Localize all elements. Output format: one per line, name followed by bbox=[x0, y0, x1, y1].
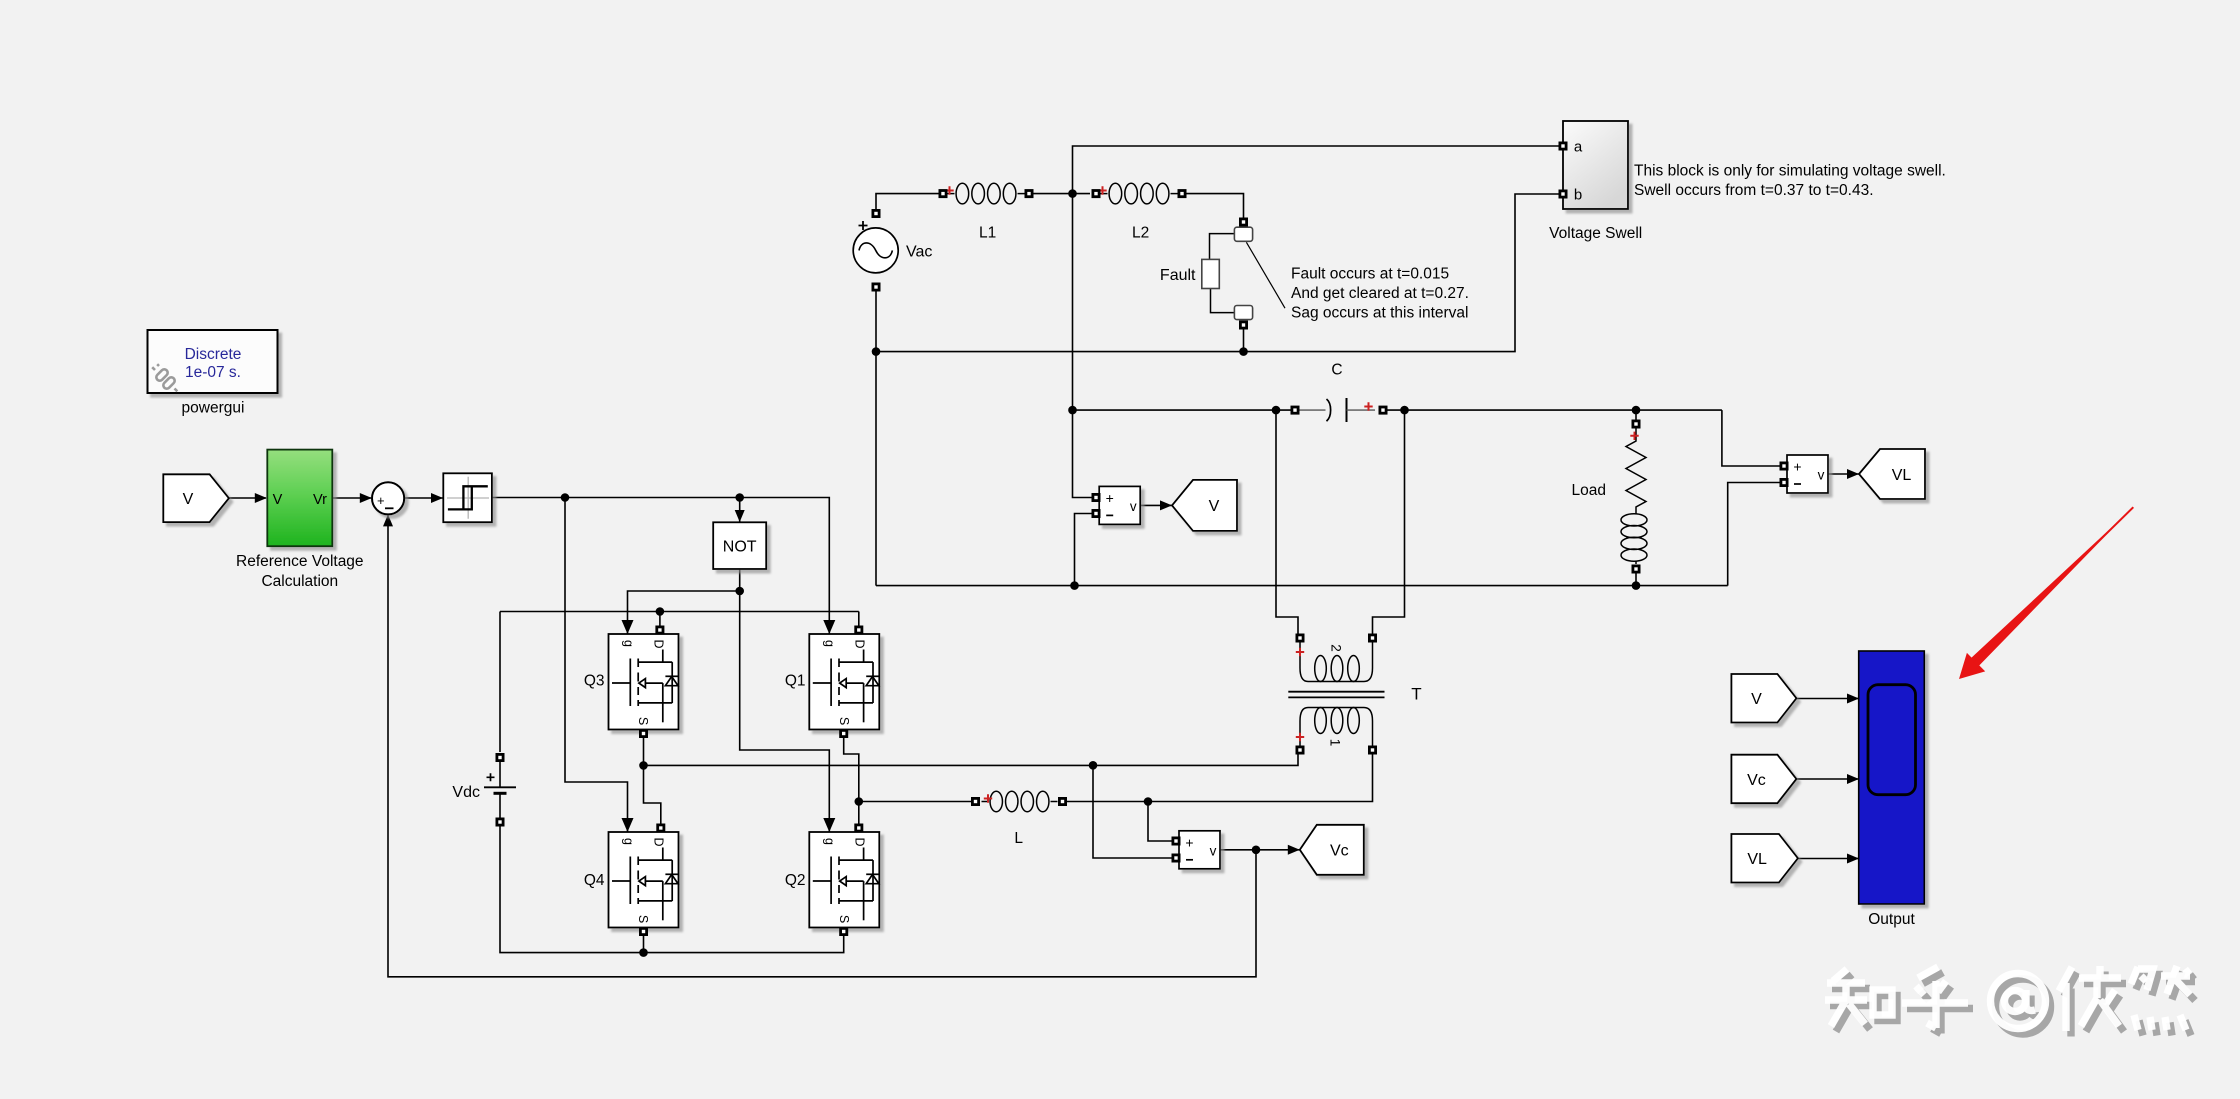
svg-text:Discrete: Discrete bbox=[185, 346, 242, 363]
wire lower bus bbox=[876, 585, 1728, 587]
wire relay out branch to Q4 gate bbox=[565, 498, 628, 833]
arrowhead into NOT bbox=[735, 510, 745, 522]
transistor Q1 bbox=[809, 634, 879, 730]
from tag Vc bbox=[1731, 755, 1796, 804]
wire capacitor C right to Load and VL bbox=[1387, 409, 1722, 411]
port T w2 r bbox=[1368, 634, 1377, 643]
node NOT branch bbox=[735, 493, 744, 502]
svg-text:NOT: NOT bbox=[723, 539, 757, 556]
node relay branch bbox=[561, 493, 570, 502]
port VL+ bbox=[1780, 462, 1789, 471]
port L1 l bbox=[939, 189, 948, 198]
input tag V bbox=[163, 474, 229, 522]
node drain rail bbox=[656, 607, 665, 616]
svg-text:Q2: Q2 bbox=[785, 872, 806, 889]
wire to Vc meter plus bbox=[1148, 802, 1174, 842]
wire cap right node to transformer w2 right bbox=[1373, 410, 1405, 634]
wire VL tag to scope bbox=[1798, 858, 1859, 860]
goto tag VL bbox=[1859, 449, 1925, 499]
voltmeter Vc bbox=[1179, 831, 1220, 869]
wire midpoint to inductor L bbox=[859, 801, 971, 803]
port Vc+ bbox=[1172, 837, 1181, 846]
port Load t bbox=[1632, 420, 1641, 429]
arrowhead into V tag bbox=[1160, 500, 1172, 510]
arrowhead into Q2 gate bbox=[823, 818, 835, 832]
node source rail bbox=[639, 948, 648, 957]
port C l bbox=[1291, 406, 1300, 415]
node Vc minus bbox=[1089, 761, 1098, 770]
svg-text:a: a bbox=[1574, 139, 1583, 156]
svg-text:v: v bbox=[1210, 843, 1217, 858]
port T w1 l bbox=[1296, 746, 1305, 755]
port L r bbox=[1058, 797, 1067, 806]
wire V meter minus to bus bbox=[1075, 514, 1096, 586]
svg-text:Output: Output bbox=[1868, 911, 1915, 928]
wire rail to Q3 drain bbox=[659, 612, 661, 627]
powergui block bbox=[148, 330, 278, 393]
wire sum to relay bbox=[404, 497, 443, 499]
port T w1 r bbox=[1368, 746, 1377, 755]
transistor Q3 bbox=[609, 634, 679, 730]
wire Load top lead bbox=[1635, 410, 1637, 420]
port Vac - bbox=[872, 283, 881, 292]
svg-text:Calculation: Calculation bbox=[261, 573, 338, 590]
svg-text:L1: L1 bbox=[979, 225, 996, 242]
voltmeter VL bbox=[1787, 455, 1828, 493]
port T w2 l bbox=[1296, 634, 1305, 643]
svg-text:This block is only for simulat: This block is only for simulating voltag… bbox=[1634, 163, 1946, 180]
svg-text:Voltage Swell: Voltage Swell bbox=[1549, 225, 1642, 242]
wire drain rail bbox=[500, 611, 859, 613]
wire rail to Vc meter minus bbox=[1093, 765, 1174, 858]
arrowhead feedback into sum bbox=[383, 514, 393, 526]
wire VL meter out to VL tag bbox=[1828, 473, 1859, 475]
node Load top bbox=[1632, 406, 1641, 415]
port Q2 D bbox=[854, 824, 863, 833]
svg-text:Fault: Fault bbox=[1160, 267, 1196, 284]
svg-text:2: 2 bbox=[1329, 644, 1344, 652]
wire V tag to scope bbox=[1796, 698, 1859, 700]
node Vac bus bbox=[872, 347, 881, 356]
port Vdc+ bbox=[496, 753, 505, 762]
svg-text:v: v bbox=[1818, 468, 1825, 483]
svg-text:+: + bbox=[1185, 834, 1193, 850]
port V- bbox=[1092, 509, 1101, 518]
from tag V bbox=[1731, 674, 1796, 723]
svg-text:V: V bbox=[273, 492, 283, 508]
capacitor C bbox=[1299, 409, 1326, 411]
wire midpoint rail to transformer w1 left bbox=[644, 754, 1299, 765]
wire Vac bottom down to lower bus bbox=[875, 287, 877, 586]
arrowhead into relay bbox=[431, 493, 443, 503]
Fault breaker bbox=[1202, 227, 1253, 319]
port Q3 S bbox=[639, 729, 648, 738]
port Fault b bbox=[1239, 321, 1248, 330]
wire branch down to NOT bbox=[739, 498, 741, 523]
svg-text:Swell occurs from t=0.37 to t=: Swell occurs from t=0.37 to t=0.43. bbox=[1634, 182, 1874, 199]
port Q4 S bbox=[639, 927, 648, 936]
leader line annotation bbox=[1246, 242, 1285, 308]
node C right bbox=[1400, 406, 1409, 415]
wire Vdc plus up bbox=[499, 612, 501, 753]
port Vdc- bbox=[496, 818, 505, 827]
goto tag V bbox=[1172, 480, 1237, 531]
svg-text:V: V bbox=[183, 491, 194, 508]
Load RL branch bbox=[1626, 428, 1646, 511]
NOT block bbox=[713, 522, 766, 569]
node L1-L2 bbox=[1068, 189, 1077, 198]
arrowhead into sum bbox=[360, 493, 372, 503]
svg-text:VL: VL bbox=[1747, 851, 1767, 868]
scope Output bbox=[1859, 651, 1925, 904]
port Vac + bbox=[872, 209, 881, 218]
svg-text:Fault occurs at t=0.015: Fault occurs at t=0.015 bbox=[1291, 266, 1449, 283]
arrowhead into Q1 gate bbox=[823, 620, 835, 634]
source Vac bbox=[853, 228, 898, 273]
watermark zhihu bbox=[1830, 972, 2195, 1037]
wire Vc meter out to Vc tag bbox=[1220, 849, 1300, 851]
wire Q3 source down bbox=[643, 734, 645, 766]
node V minus bus bbox=[1070, 581, 1079, 590]
wire L2 to Fault top bbox=[1186, 194, 1244, 218]
wire cap left node to transformer w2 left bbox=[1276, 410, 1298, 634]
port Q4 D bbox=[656, 824, 665, 833]
wire L1 to L2 with node bbox=[1033, 193, 1090, 195]
arrowhead into Q4 gate bbox=[622, 818, 634, 832]
node Fault bus bbox=[1239, 347, 1248, 356]
wire feedback to sum bbox=[388, 515, 1256, 977]
port Q3 D bbox=[655, 626, 664, 635]
voltmeter V bbox=[1099, 486, 1140, 524]
svg-text:Sag occurs at this interval: Sag occurs at this interval bbox=[1291, 305, 1468, 322]
svg-text:Vc: Vc bbox=[1747, 772, 1766, 789]
svg-text:Vc: Vc bbox=[1330, 843, 1349, 860]
port b bbox=[1559, 190, 1568, 199]
wire Load bottom lead bbox=[1635, 573, 1637, 586]
svg-text:L2: L2 bbox=[1132, 225, 1149, 242]
wire L to transformer w1 right bbox=[1066, 754, 1373, 802]
wire node to Voltage Swell port a bbox=[1073, 146, 1560, 194]
transformer T bbox=[1288, 642, 1384, 746]
wire bottom bus to Voltage Swell port b bbox=[876, 194, 1559, 352]
svg-text:Vdc: Vdc bbox=[452, 784, 480, 801]
svg-text:+: + bbox=[1793, 459, 1801, 475]
wire NOT out to Q3 gate bbox=[628, 591, 740, 634]
wire to V meter plus bbox=[1073, 410, 1096, 497]
node Vc out bbox=[1252, 846, 1261, 855]
wire Fault bottom to bus bbox=[1243, 329, 1245, 352]
arrowhead scope input 1 bbox=[1847, 694, 1859, 704]
inductor L1 bbox=[948, 193, 955, 195]
transistor Q2 bbox=[809, 832, 879, 928]
inductor L bbox=[982, 801, 989, 803]
wire Vc tag to scope bbox=[1796, 778, 1859, 780]
port Q1 D bbox=[854, 626, 863, 635]
svg-text:V: V bbox=[1209, 498, 1220, 515]
battery Vdc bbox=[484, 762, 516, 818]
transistor Q4 bbox=[609, 832, 679, 928]
svg-text:Q1: Q1 bbox=[785, 673, 806, 690]
svg-text:VL: VL bbox=[1892, 467, 1912, 484]
port L2 r bbox=[1178, 189, 1187, 198]
svg-text:1e-07 s.: 1e-07 s. bbox=[185, 364, 241, 381]
node Q3-Q4 midpoint bbox=[639, 761, 648, 770]
svg-text:L: L bbox=[1014, 830, 1023, 847]
wire NOT out to Q2 gate bbox=[740, 591, 830, 832]
wire NOT output bbox=[739, 569, 741, 591]
node Q1-Q2 midpoint bbox=[855, 797, 864, 806]
subsystem Reference Voltage Calculation bbox=[267, 450, 332, 547]
port L2 l bbox=[1092, 189, 1101, 198]
wire V tag to green block bbox=[229, 497, 266, 499]
svg-text:Vac: Vac bbox=[906, 244, 932, 261]
arrowhead scope input 3 bbox=[1847, 854, 1859, 864]
svg-text:b: b bbox=[1574, 187, 1582, 204]
svg-text:And get cleared at t=0.27.: And get cleared at t=0.27. bbox=[1291, 285, 1469, 302]
svg-text:Q3: Q3 bbox=[584, 673, 605, 690]
wire Vdc minus to source rail to Q2 source bbox=[500, 826, 844, 953]
svg-text:v: v bbox=[1130, 499, 1137, 514]
svg-text:Reference Voltage: Reference Voltage bbox=[236, 553, 364, 570]
goto tag Vc bbox=[1300, 825, 1364, 875]
arrowhead into Vc tag bbox=[1288, 845, 1300, 855]
wire relay out to Q1 gate bbox=[492, 498, 829, 635]
svg-text:Load: Load bbox=[1572, 482, 1606, 499]
node NOT out bbox=[735, 587, 744, 596]
wire Q4 source to rail bbox=[643, 933, 645, 953]
node cap row left bbox=[1068, 406, 1077, 415]
wire midpoint to Q4 drain bbox=[644, 765, 661, 826]
svg-text:+: + bbox=[1106, 490, 1114, 506]
svg-text:Q4: Q4 bbox=[584, 872, 605, 889]
port L1 r bbox=[1025, 189, 1034, 198]
relay block bbox=[443, 473, 492, 522]
port L l bbox=[971, 797, 980, 806]
node Load bottom bbox=[1632, 581, 1641, 590]
node C left bbox=[1272, 406, 1281, 415]
port Vc- bbox=[1172, 854, 1181, 863]
wire Q1 source to Q2 drain bbox=[844, 734, 859, 831]
node Vc plus bbox=[1144, 797, 1153, 806]
Voltage Swell block bbox=[1563, 121, 1628, 209]
wire green block to sum bbox=[333, 497, 372, 499]
red arrow annotation bbox=[1959, 507, 2133, 679]
arrowhead into VL tag bbox=[1847, 469, 1859, 479]
svg-text:Vr: Vr bbox=[313, 492, 327, 508]
wire Vac top to L1 bbox=[876, 194, 941, 214]
inductor L2 bbox=[1101, 193, 1108, 195]
from tag VL bbox=[1731, 834, 1798, 883]
port Fault t bbox=[1239, 218, 1248, 227]
port Q1 S bbox=[839, 729, 848, 738]
wire node down to capacitor row bbox=[1072, 194, 1074, 411]
arrowhead scope input 2 bbox=[1847, 774, 1859, 784]
port a bbox=[1559, 142, 1568, 151]
svg-text:+: + bbox=[377, 493, 385, 508]
svg-text:1: 1 bbox=[1328, 739, 1343, 747]
port Q2 S bbox=[839, 927, 848, 936]
arrowhead into Reference Voltage Calculation bbox=[255, 493, 267, 503]
port V+ bbox=[1092, 493, 1101, 502]
svg-text:C: C bbox=[1331, 362, 1342, 379]
port VL- bbox=[1780, 478, 1789, 487]
svg-text:V: V bbox=[1751, 691, 1762, 708]
wire V meter out to V tag bbox=[1140, 504, 1172, 506]
port C r bbox=[1379, 406, 1388, 415]
wire to VL meter plus bbox=[1722, 410, 1783, 466]
port Load b bbox=[1632, 565, 1641, 574]
svg-text:powergui: powergui bbox=[182, 400, 245, 417]
wire rail to Q1 drain bbox=[858, 612, 860, 627]
arrowhead into Q3 gate bbox=[622, 620, 634, 634]
sum block bbox=[372, 482, 404, 514]
svg-text:T: T bbox=[1411, 685, 1421, 704]
wire to capacitor C left bbox=[1073, 409, 1292, 411]
wire bus to VL meter minus bbox=[1728, 483, 1783, 586]
